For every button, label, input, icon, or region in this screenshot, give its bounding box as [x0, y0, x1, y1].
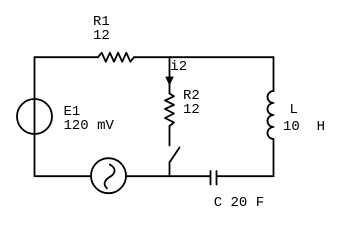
wire R2 to switch contact	[169, 126, 171, 146]
wire top-right segment	[134, 56, 274, 58]
label R2	[183, 89, 200, 117]
wire left vertical	[34, 57, 36, 176]
label i2	[170, 60, 187, 74]
AC source	[91, 158, 126, 193]
wire right vertical upper	[273, 57, 275, 91]
label 10 H	[283, 120, 325, 134]
wire bottom-middle segment	[126, 175, 210, 177]
label L	[290, 103, 298, 117]
wire bottom-left segment	[35, 175, 92, 177]
wire middle branch lower	[169, 162, 171, 176]
current arrow i2	[165, 77, 174, 86]
label R1	[93, 15, 110, 43]
inductor L	[268, 91, 274, 139]
label E1	[64, 105, 114, 133]
voltage source E1	[17, 99, 52, 134]
resistor R1	[98, 53, 134, 62]
wire bottom-right segment	[218, 175, 274, 177]
wire middle branch upper	[169, 57, 171, 93]
label C 20 F	[214, 196, 264, 210]
wire right vertical lower	[273, 139, 275, 176]
wire top-left segment	[35, 56, 99, 58]
resistor R2	[165, 94, 174, 127]
switch (open blade)	[170, 148, 180, 163]
capacitor C	[211, 171, 217, 185]
